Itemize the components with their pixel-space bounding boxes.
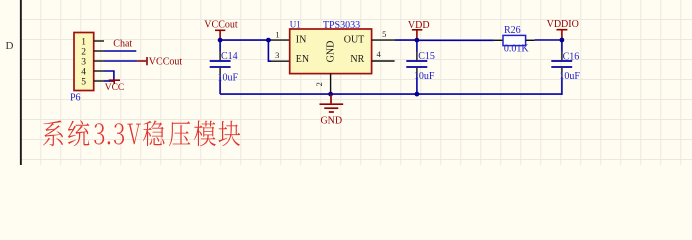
svg-text:Chat: Chat [113,38,132,49]
svg-text:0.01K: 0.01K [504,43,530,54]
capacitor C15 [416,40,418,94]
svg-text:5: 5 [382,29,386,39]
svg-text:VCCout: VCCout [204,19,238,30]
svg-text:3: 3 [275,50,279,60]
regulator U1 TPS3033 [290,29,372,74]
svg-text:GND: GND [325,41,336,63]
pin 1 IN lead [271,39,290,41]
svg-text:5: 5 [81,77,86,87]
svg-text:D: D [6,40,14,52]
svg-text:EN: EN [296,54,309,65]
wire Chat [104,50,136,52]
svg-text:R26: R26 [504,25,521,36]
svg-text:10uF: 10uF [218,73,239,84]
P6 pins 1-5 [94,41,104,81]
bottom rail wire [220,93,562,95]
U1 pin names IN/EN/OUT/NR/GND [296,35,365,66]
connector P6 [74,33,94,91]
svg-text:C15: C15 [418,51,435,62]
pin 2 GND lead [330,74,332,95]
power port VCCout (left) [137,57,147,65]
wire pin4 to VCC [104,71,114,81]
svg-text:3: 3 [81,57,86,67]
title 系统3.3V稳压模块 [43,120,240,146]
svg-text:VCCout: VCCout [149,56,183,67]
svg-text:P6: P6 [70,93,81,104]
svg-text:GND: GND [320,116,342,127]
svg-text:1: 1 [81,37,86,47]
U1 pin numbers 1,3,5,4,2 [275,29,386,86]
svg-text:10uF: 10uF [414,71,435,82]
svg-text:IN: IN [296,35,307,46]
svg-text:10uF: 10uF [559,71,580,82]
svg-text:C16: C16 [563,51,580,62]
ground GND [320,94,344,112]
capacitor C16 [561,40,563,95]
pin 3 EN lead [271,60,290,62]
pin 5 OUT lead [372,39,395,41]
svg-text:4: 4 [81,67,86,77]
svg-text:C14: C14 [221,51,238,62]
svg-text:OUT: OUT [344,35,365,46]
wire OUT to VDD [395,39,417,41]
wire EN drop [268,40,271,61]
svg-text:4: 4 [376,49,381,59]
wire to VCCout port [104,60,137,62]
sheet left border [20,0,22,165]
wire R26 to VDDIO [535,39,562,41]
svg-text:1: 1 [275,29,279,39]
svg-text:VCC: VCC [105,83,125,93]
svg-text:NR: NR [350,54,364,65]
resistor R26 [494,39,503,41]
svg-text:VDDIO: VDDIO [547,19,579,30]
power port VCC [109,80,120,84]
wire VCCout to U1 IN [220,39,271,41]
svg-text:2: 2 [314,82,324,86]
wire VDD to R26 [417,39,494,41]
P6 pin display numbers [81,37,86,87]
svg-text:TPS3033: TPS3033 [323,20,360,31]
capacitor C14 [219,40,221,94]
svg-text:2: 2 [81,47,86,57]
pin 4 NR lead [372,60,395,62]
junction dots [218,38,565,97]
svg-text:U1: U1 [290,19,301,29]
